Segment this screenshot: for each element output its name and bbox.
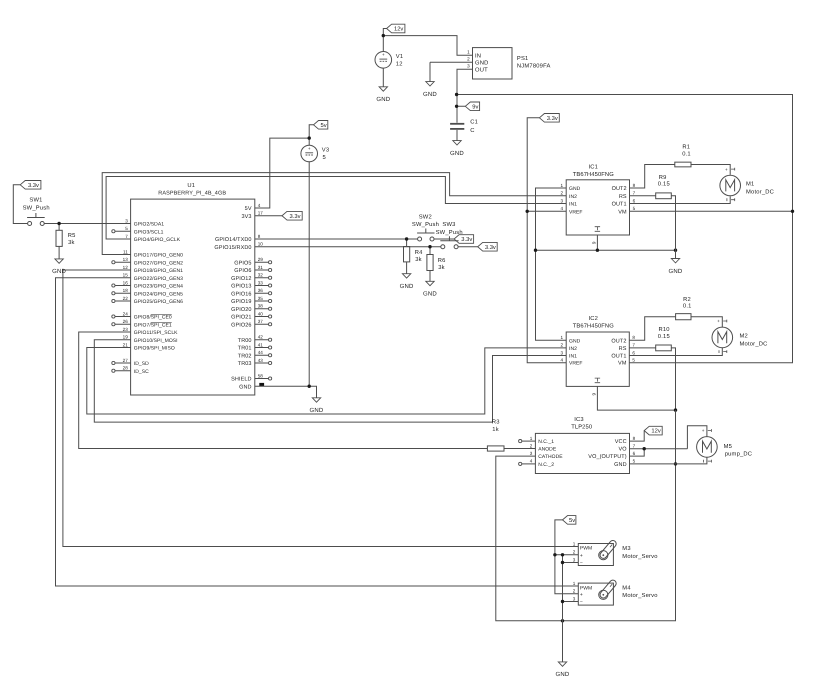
- svg-text:GPIO23/GPIO_GEN4: GPIO23/GPIO_GEN4: [134, 284, 183, 290]
- resistor R6 3k: [427, 255, 446, 271]
- connector M3 Motor_Servo: [573, 539, 658, 567]
- wire IC2 pad to ground net: [597, 386, 675, 410]
- svg-text:R10: R10: [659, 326, 670, 333]
- wire 9v net: PS1 OUT to C1, right rail, IC1 VM, IC2 VM: [457, 69, 793, 362]
- svg-text:GPIO3/SCL1: GPIO3/SCL1: [134, 229, 164, 235]
- svg-text:GND: GND: [569, 338, 581, 344]
- wire IC3 CATHODE to ground net: [496, 410, 676, 621]
- svg-text:RS: RS: [619, 194, 627, 200]
- junction ground net below IC2: [674, 408, 677, 411]
- wire SW3 to 3.3v flag: [458, 246, 478, 248]
- svg-text:3V3: 3V3: [242, 214, 252, 220]
- svg-text:GND: GND: [423, 291, 437, 298]
- svg-text:VM: VM: [618, 361, 627, 367]
- svg-text:ID_SD: ID_SD: [134, 361, 149, 367]
- svg-text:42: 42: [258, 335, 264, 340]
- svg-text:GPIO17/GPIO_GEN0: GPIO17/GPIO_GEN0: [134, 253, 183, 259]
- U1 right pin stubs, numbers and names: [214, 203, 271, 390]
- svg-text:GPIO4/GPIO_GCLK: GPIO4/GPIO_GCLK: [134, 237, 181, 243]
- svg-text:9: 9: [591, 241, 596, 244]
- svg-text:18: 18: [123, 288, 129, 293]
- wire SW1 to U1 GPIO2 and R5: [44, 224, 130, 231]
- svg-text:5: 5: [323, 155, 326, 161]
- svg-text:4: 4: [561, 358, 564, 363]
- svg-text:27: 27: [123, 358, 129, 363]
- svg-text:GND: GND: [556, 671, 570, 678]
- ground U1: [310, 398, 324, 414]
- svg-text:32: 32: [258, 273, 264, 278]
- svg-text:N.C._2: N.C._2: [538, 462, 554, 468]
- svg-text:N.C._1: N.C._1: [538, 439, 554, 445]
- svg-text:RS: RS: [619, 346, 627, 352]
- svg-text:41: 41: [258, 342, 264, 347]
- svg-text:6: 6: [633, 198, 636, 203]
- svg-text:GPIO26: GPIO26: [231, 322, 251, 328]
- regulator PS1 NJM7809FA: [467, 48, 550, 79]
- svg-text:3: 3: [573, 596, 576, 601]
- svg-text:GPIO5: GPIO5: [234, 260, 251, 266]
- svg-text:2: 2: [573, 550, 576, 555]
- svg-text:Motor_DC: Motor_DC: [740, 340, 768, 347]
- svg-text:3k: 3k: [438, 264, 445, 271]
- svg-text:TB67H450FNG: TB67H450FNG: [573, 171, 614, 178]
- wire IC2 OUT1 to M2 minus: [629, 348, 722, 356]
- svg-text:12v: 12v: [394, 26, 403, 33]
- svg-text:Motor_Servo: Motor_Servo: [622, 592, 657, 599]
- svg-text:V1: V1: [396, 54, 404, 60]
- switch SW3 SW_Push: [436, 221, 463, 249]
- ground PS1: [423, 62, 437, 98]
- svg-text:GPIO9/SPI_MISO: GPIO9/SPI_MISO: [134, 346, 175, 352]
- svg-text:12v: 12v: [651, 428, 660, 435]
- svg-text:58: 58: [258, 373, 264, 378]
- junction 9v at C1 top: [455, 93, 458, 96]
- IC3 pin names and numbers: [530, 436, 636, 468]
- svg-text:R6: R6: [438, 257, 446, 264]
- svg-text:3: 3: [467, 64, 470, 69]
- svg-text:OUT1: OUT1: [612, 202, 627, 208]
- svg-text:VM: VM: [618, 209, 627, 215]
- svg-text:2: 2: [573, 589, 576, 594]
- junction 5v servo: [553, 553, 556, 556]
- svg-text:GPIO10/SPI_MOSI: GPIO10/SPI_MOSI: [134, 338, 178, 344]
- svg-text:VREF: VREF: [569, 361, 583, 367]
- svg-text:TR03: TR03: [238, 361, 252, 367]
- svg-text:V3: V3: [322, 147, 330, 154]
- svg-text:15: 15: [123, 273, 129, 278]
- svg-text:+: +: [717, 319, 720, 324]
- svg-text:2: 2: [561, 343, 564, 348]
- svg-text:ANODE: ANODE: [538, 447, 557, 453]
- svg-text:PWM: PWM: [580, 546, 592, 552]
- wire GPIO15/RXD0 to SW3: [255, 247, 441, 255]
- svg-text:5v: 5v: [569, 518, 575, 524]
- power flag 9v: [465, 102, 479, 111]
- svg-text:28: 28: [123, 366, 129, 371]
- svg-text:Motor_Servo: Motor_Servo: [622, 553, 657, 560]
- svg-text:31: 31: [258, 265, 264, 270]
- svg-text:3: 3: [561, 198, 564, 203]
- svg-text:M2: M2: [740, 333, 748, 340]
- svg-text:GND: GND: [450, 150, 464, 157]
- svg-text:GPIO22/GPIO_GEN3: GPIO22/GPIO_GEN3: [134, 276, 183, 282]
- junction 9v at IC1 VM: [791, 210, 794, 213]
- svg-text:GND: GND: [52, 268, 66, 275]
- wire 3.3v to SW1: [13, 185, 27, 224]
- svg-text:−: −: [580, 600, 583, 606]
- svg-text:0.15: 0.15: [658, 333, 670, 340]
- IC1 pin names and numbers: [561, 183, 636, 216]
- svg-text:5: 5: [633, 206, 636, 211]
- svg-text:10: 10: [258, 242, 264, 247]
- svg-text:5V: 5V: [245, 206, 252, 212]
- svg-text:7: 7: [633, 191, 636, 196]
- svg-text:5v: 5v: [320, 123, 326, 129]
- svg-text:35: 35: [258, 296, 264, 301]
- svg-text:SHIELD: SHIELD: [231, 377, 251, 383]
- wire IC1 GND chain to IC2 GND and ground rail: [536, 188, 676, 340]
- svg-text:IN1: IN1: [569, 202, 577, 208]
- svg-text:9: 9: [591, 393, 596, 396]
- wire GPIO22 to M4 PWM: [56, 278, 579, 586]
- svg-text:2: 2: [530, 444, 533, 449]
- svg-text:7: 7: [633, 444, 636, 449]
- svg-text:GPIO11/SPI_SCLK: GPIO11/SPI_SCLK: [134, 330, 178, 336]
- svg-text:1: 1: [561, 183, 564, 188]
- power flag 5v V3: [314, 121, 328, 130]
- svg-text:M4: M4: [622, 586, 631, 592]
- switch SW1 SW_Push: [23, 197, 50, 226]
- svg-text:GND: GND: [239, 384, 252, 390]
- svg-text:GND: GND: [376, 96, 390, 103]
- svg-text:12: 12: [396, 60, 403, 67]
- svg-text:3.3v: 3.3v: [28, 182, 39, 189]
- svg-text:+: +: [382, 52, 385, 57]
- svg-text:PS1: PS1: [517, 55, 529, 62]
- svg-text:VREF: VREF: [569, 209, 583, 215]
- svg-text:GND: GND: [569, 186, 581, 192]
- svg-text:4: 4: [561, 206, 564, 211]
- svg-text:OUT2: OUT2: [611, 338, 626, 344]
- svg-text:IC2: IC2: [588, 315, 598, 322]
- svg-text:M5: M5: [724, 444, 732, 450]
- ground servo rail: [556, 662, 570, 678]
- svg-text:4: 4: [530, 459, 533, 464]
- resistor R10 0.15: [656, 326, 672, 351]
- svg-text:43: 43: [258, 358, 264, 363]
- resistor R2 0.1: [676, 296, 692, 320]
- svg-text:SW3: SW3: [442, 221, 455, 228]
- svg-text:8: 8: [633, 436, 636, 441]
- wire R3 to IC3 ANODE: [504, 448, 535, 450]
- capacitor C1: [450, 119, 478, 134]
- svg-text:13: 13: [123, 257, 129, 262]
- IC IC1 TB67H450FNG body: [566, 164, 629, 236]
- svg-text:+: +: [725, 167, 728, 172]
- svg-text:GPIO20: GPIO20: [231, 307, 251, 313]
- junction 5v net: [308, 136, 311, 139]
- ground R5: [52, 246, 66, 275]
- svg-text:22: 22: [123, 296, 129, 301]
- svg-text:GPIO7/SPI_CE1: GPIO7/SPI_CE1: [134, 322, 172, 328]
- ground IC1 rail: [669, 250, 683, 275]
- wire IC1 OUT2 to R1: [630, 165, 675, 189]
- svg-text:36: 36: [258, 288, 264, 293]
- svg-text:6: 6: [632, 350, 635, 355]
- junction R4: [405, 237, 408, 240]
- junction servo ground rail: [561, 553, 564, 556]
- svg-text:GPIO21: GPIO21: [231, 315, 251, 321]
- svg-text:3k: 3k: [415, 256, 422, 263]
- junction IC3 VO: [643, 447, 646, 450]
- svg-text:8: 8: [258, 234, 261, 239]
- motor M1 Motor_DC: [720, 167, 774, 201]
- wire 5v net: flag, V3 top, U1 5V pin: [255, 125, 314, 208]
- resistor R5 3k: [56, 230, 76, 246]
- svg-text:TB67H450FNG: TB67H450FNG: [573, 322, 614, 329]
- svg-text:GPIO16: GPIO16: [231, 291, 251, 297]
- power flag 3.3v SW2: [454, 235, 474, 244]
- svg-text:3.3v: 3.3v: [461, 236, 472, 243]
- connector M4 Motor_Servo: [573, 579, 658, 606]
- svg-text:IN1: IN1: [569, 354, 577, 360]
- svg-text:16: 16: [123, 280, 129, 285]
- power flag 3.3v SW1: [20, 181, 41, 190]
- resistor R3 1k: [487, 419, 504, 452]
- svg-text:1k: 1k: [492, 426, 499, 433]
- wire IC1 RS to R9: [630, 195, 656, 197]
- svg-text:TR00: TR00: [238, 338, 252, 344]
- svg-text:C1: C1: [470, 119, 478, 126]
- svg-text:24: 24: [123, 311, 129, 316]
- svg-text:OUT1: OUT1: [611, 354, 626, 360]
- svg-text:29: 29: [258, 257, 264, 262]
- wire V3 minus to U1 GND net: [308, 162, 310, 386]
- svg-text:+: +: [308, 146, 311, 151]
- svg-text:11: 11: [123, 249, 128, 254]
- svg-text:CATHODE: CATHODE: [538, 454, 563, 460]
- svg-text:GPIO2/SDA1: GPIO2/SDA1: [134, 222, 164, 228]
- wire R1 to M1 plus: [691, 165, 730, 175]
- wire R2 to M2 plus: [691, 317, 722, 327]
- wire 3.3v rail to IC1 VREF and IC2 VREF: [527, 118, 566, 363]
- svg-text:R5: R5: [68, 233, 76, 239]
- svg-text:2: 2: [561, 191, 564, 196]
- junction ground net at servo rail: [561, 619, 564, 622]
- svg-text:GND: GND: [669, 268, 683, 275]
- svg-text:PWM: PWM: [580, 585, 592, 591]
- resistor R4 3k: [404, 247, 424, 263]
- resistor R9 0.15: [656, 174, 672, 199]
- svg-text:3k: 3k: [68, 239, 75, 246]
- IC IC2 TB67H450FNG body: [566, 315, 629, 387]
- svg-text:R4: R4: [415, 250, 423, 256]
- svg-text:1: 1: [561, 335, 564, 340]
- svg-text:3: 3: [125, 218, 128, 223]
- wire GPIO14/TXD0 to SW2: [255, 239, 418, 247]
- svg-text:GPIO19: GPIO19: [231, 299, 251, 305]
- svg-text:5: 5: [632, 358, 635, 363]
- svg-text:GPIO18/GPIO_GEN1: GPIO18/GPIO_GEN1: [134, 268, 183, 274]
- svg-text:TR02: TR02: [238, 353, 252, 359]
- motor M5 pump_DC: [697, 428, 753, 462]
- svg-text:3: 3: [561, 350, 564, 355]
- svg-text:C: C: [470, 127, 474, 134]
- svg-text:SW1: SW1: [29, 197, 42, 204]
- svg-text:37: 37: [258, 319, 264, 324]
- wire SW2 to 3.3v flag: [434, 238, 454, 240]
- voltage source V3 5: [301, 145, 329, 162]
- junction GND rail: [534, 249, 537, 252]
- svg-text:R9: R9: [659, 174, 667, 181]
- svg-text:23: 23: [123, 327, 129, 332]
- IC1 thermal pad pin 9 mark: [591, 227, 600, 244]
- ground C1: [450, 130, 464, 157]
- svg-text:OUT: OUT: [475, 66, 488, 73]
- motor M2 Motor_DC: [712, 319, 768, 353]
- wire IC1 OUT1 to M1 minus: [630, 196, 731, 203]
- svg-text:VO: VO: [619, 447, 628, 453]
- svg-text:GPIO25/GPIO_GEN6: GPIO25/GPIO_GEN6: [134, 299, 183, 305]
- wire servo ground rail: [563, 555, 579, 662]
- wire 12v net: flag to V1 and PS1 IN: [383, 29, 472, 56]
- power flag 3.3v SW3: [478, 242, 498, 251]
- svg-text:M1: M1: [746, 182, 754, 188]
- svg-text:RASPBERRY_PI_4B_4GB: RASPBERRY_PI_4B_4GB: [158, 190, 226, 196]
- wire GPIO11 to R3: [79, 332, 488, 449]
- svg-text:M3: M3: [622, 545, 630, 552]
- svg-text:R1: R1: [682, 145, 690, 151]
- svg-text:GPIO15/RXD0: GPIO15/RXD0: [214, 245, 251, 251]
- wire PS1 GND pin: [430, 61, 473, 63]
- wire GPIO4 to IC1 IN1: [106, 177, 566, 240]
- svg-text:9v: 9v: [472, 103, 478, 110]
- svg-text:1: 1: [573, 581, 576, 586]
- wire GPIO18 to M3 PWM: [63, 270, 578, 547]
- svg-text:3: 3: [530, 451, 533, 456]
- power flag 3.3v U1: [282, 211, 302, 220]
- wire 5v to servo plus pins: [555, 520, 578, 594]
- wire IC2 RS to R10: [629, 347, 655, 349]
- power flag 12v net V1: [387, 24, 405, 33]
- svg-text:+: +: [580, 553, 583, 559]
- power flag 3.3v rail: [539, 114, 559, 123]
- svg-text:U1: U1: [187, 183, 195, 189]
- svg-text:pump_DC: pump_DC: [725, 451, 753, 458]
- svg-text:GPIO8/SPI_CE0: GPIO8/SPI_CE0: [134, 315, 172, 321]
- wire R9 to ground rail: [671, 196, 675, 250]
- svg-text:3.3v: 3.3v: [290, 213, 301, 220]
- svg-text:5: 5: [633, 459, 636, 464]
- wire U1 GND pin to ground: [255, 386, 317, 398]
- svg-text:NJM7809FA: NJM7809FA: [517, 62, 551, 69]
- svg-text:SW_Push: SW_Push: [412, 221, 439, 228]
- svg-text:SW_Push: SW_Push: [23, 204, 50, 211]
- ground V1: [376, 68, 390, 103]
- svg-text:8: 8: [632, 335, 635, 340]
- svg-text:GND: GND: [614, 462, 627, 468]
- svg-text:−: −: [580, 561, 583, 567]
- wire U1 3V3 to 3.3v flag: [255, 215, 282, 217]
- svg-text:IC1: IC1: [588, 164, 598, 171]
- IC3 unconnected pin stubs: [519, 440, 536, 466]
- svg-text:GPIO27/GPIO_GEN2: GPIO27/GPIO_GEN2: [134, 260, 183, 266]
- svg-text:SW2: SW2: [419, 213, 432, 220]
- svg-text:+: +: [580, 592, 583, 598]
- svg-text:GPIO14/TXD0: GPIO14/TXD0: [215, 237, 252, 243]
- svg-text:33: 33: [258, 280, 264, 285]
- svg-text:6: 6: [633, 451, 636, 456]
- svg-text:GPIO12: GPIO12: [231, 276, 251, 282]
- svg-text:1: 1: [573, 541, 576, 546]
- svg-text:17: 17: [258, 211, 264, 216]
- ground R6: [423, 271, 437, 298]
- IC2 thermal pad pin 9 mark: [591, 378, 600, 395]
- svg-text:R2: R2: [683, 296, 691, 303]
- svg-text:GPIO6: GPIO6: [234, 268, 251, 274]
- wire IC3 VO to M5 plus and VO_(OUTPUT): [630, 426, 707, 456]
- svg-text:0.1: 0.1: [682, 150, 691, 157]
- junction R6: [428, 245, 431, 248]
- wire IC2 OUT2 to R2: [629, 317, 675, 341]
- svg-text:VO_(OUTPUT): VO_(OUTPUT): [588, 454, 626, 460]
- IC2 pin names and numbers: [561, 335, 636, 367]
- U1 left pin stubs, numbers and names: [112, 218, 183, 374]
- svg-text:3.3v: 3.3v: [547, 115, 558, 122]
- svg-text:IC3: IC3: [574, 416, 584, 423]
- svg-text:TR01: TR01: [238, 346, 252, 352]
- svg-text:5: 5: [125, 226, 128, 231]
- svg-text:7: 7: [632, 343, 635, 348]
- svg-text:1: 1: [467, 50, 470, 55]
- wire R10 to ground chain: [671, 348, 675, 410]
- svg-text:GND: GND: [400, 283, 414, 290]
- svg-text:40: 40: [258, 311, 264, 316]
- svg-text:SW_Push: SW_Push: [436, 229, 463, 236]
- svg-text:VCC: VCC: [615, 439, 627, 445]
- junction ground net at IC3/M5 GND: [674, 462, 677, 465]
- svg-text:12: 12: [123, 265, 129, 270]
- wire IC3 VCC to 12v flag: [630, 431, 645, 442]
- svg-text:Motor_DC: Motor_DC: [746, 188, 774, 195]
- svg-text:4: 4: [258, 203, 261, 208]
- svg-text:IN2: IN2: [569, 194, 577, 200]
- svg-text:ID_SC: ID_SC: [134, 369, 149, 375]
- wire GPIO10 to IC2 IN1: [94, 340, 566, 422]
- svg-text:GND: GND: [310, 407, 324, 414]
- svg-text:IN: IN: [475, 53, 481, 59]
- power flag 5v servos: [563, 516, 576, 525]
- svg-text:R3: R3: [492, 419, 500, 426]
- svg-text:GND: GND: [423, 91, 437, 98]
- svg-text:26: 26: [123, 319, 129, 324]
- svg-text:7: 7: [125, 234, 128, 239]
- svg-text:GND: GND: [475, 59, 488, 66]
- svg-text:19: 19: [123, 335, 129, 340]
- wire GPIO9 to IC2 IN2: [87, 348, 566, 415]
- svg-text:1: 1: [530, 436, 533, 441]
- svg-text:GPIO24/GPIO_GEN5: GPIO24/GPIO_GEN5: [134, 291, 183, 297]
- svg-text:8: 8: [633, 183, 636, 188]
- IC IC3 TLP250 body: [535, 416, 629, 473]
- resistor R1 0.1: [675, 145, 691, 167]
- ground R4: [400, 262, 414, 290]
- junction 3.3v rail at IC1 VREF: [526, 210, 529, 213]
- svg-text:IN2: IN2: [569, 346, 577, 352]
- svg-text:2: 2: [467, 57, 470, 62]
- svg-text:+: +: [702, 428, 705, 433]
- junction V3 minus at U1 GND: [308, 385, 311, 388]
